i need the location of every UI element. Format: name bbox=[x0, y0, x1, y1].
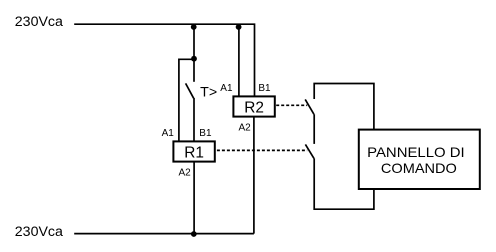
svg-text:PANNELLO DI: PANNELLO DI bbox=[367, 144, 465, 160]
wire loop top from contacts to panel bbox=[314, 84, 374, 130]
svg-text:A2: A2 bbox=[179, 168, 192, 179]
thermal contact blade T> bbox=[186, 83, 194, 98]
svg-text:230Vca: 230Vca bbox=[15, 14, 63, 30]
svg-text:T>: T> bbox=[200, 84, 217, 99]
wire vertical drop from top line to branch node bbox=[193, 24, 195, 59]
wire lower terminal of thermal contact to R1 B1 bbox=[193, 98, 195, 142]
wire bottom 230Vca supply line bbox=[74, 233, 254, 235]
svg-text:A1: A1 bbox=[220, 83, 233, 94]
svg-text:B1: B1 bbox=[199, 128, 212, 139]
junction dot at branch node bbox=[191, 56, 197, 62]
relay coil R1 bbox=[173, 141, 214, 161]
dashed actuation link from R1 to contact K1 bbox=[217, 149, 307, 151]
relay coil R2 bbox=[233, 96, 274, 116]
wire loop bottom from contact K1 to panel bbox=[314, 158, 374, 209]
wire branch to R1 A1 bbox=[179, 59, 194, 141]
svg-text:COMANDO: COMANDO bbox=[381, 160, 457, 176]
contact K2 blade (driven by R2) bbox=[305, 99, 314, 114]
wire between contact K2 and contact K1 bbox=[313, 114, 315, 144]
wire upper terminal of thermal contact bbox=[193, 59, 195, 82]
box PANNELLO DI COMANDO bbox=[359, 130, 480, 189]
wire R2 A2 down to bottom line bbox=[253, 117, 255, 234]
wire top 230Vca supply line bbox=[74, 24, 254, 96]
wire R1 A2 down to bottom line bbox=[193, 162, 195, 234]
svg-text:A1: A1 bbox=[162, 128, 175, 139]
svg-text:230Vca: 230Vca bbox=[15, 224, 63, 240]
dashed actuation link from R2 to contact K2 bbox=[276, 104, 307, 106]
junction dot on bottom line bbox=[191, 231, 197, 237]
junction dot on top line at x=194 bbox=[191, 24, 197, 30]
junction dot on top line at x=238.5 bbox=[236, 24, 242, 30]
contact K1 blade (driven by R1) bbox=[305, 144, 314, 158]
svg-text:B1: B1 bbox=[258, 83, 271, 94]
svg-text:A2: A2 bbox=[239, 123, 252, 134]
svg-text:R1: R1 bbox=[184, 144, 204, 161]
svg-text:R2: R2 bbox=[244, 99, 264, 116]
wire from top line to R2 A1 bbox=[238, 24, 240, 96]
